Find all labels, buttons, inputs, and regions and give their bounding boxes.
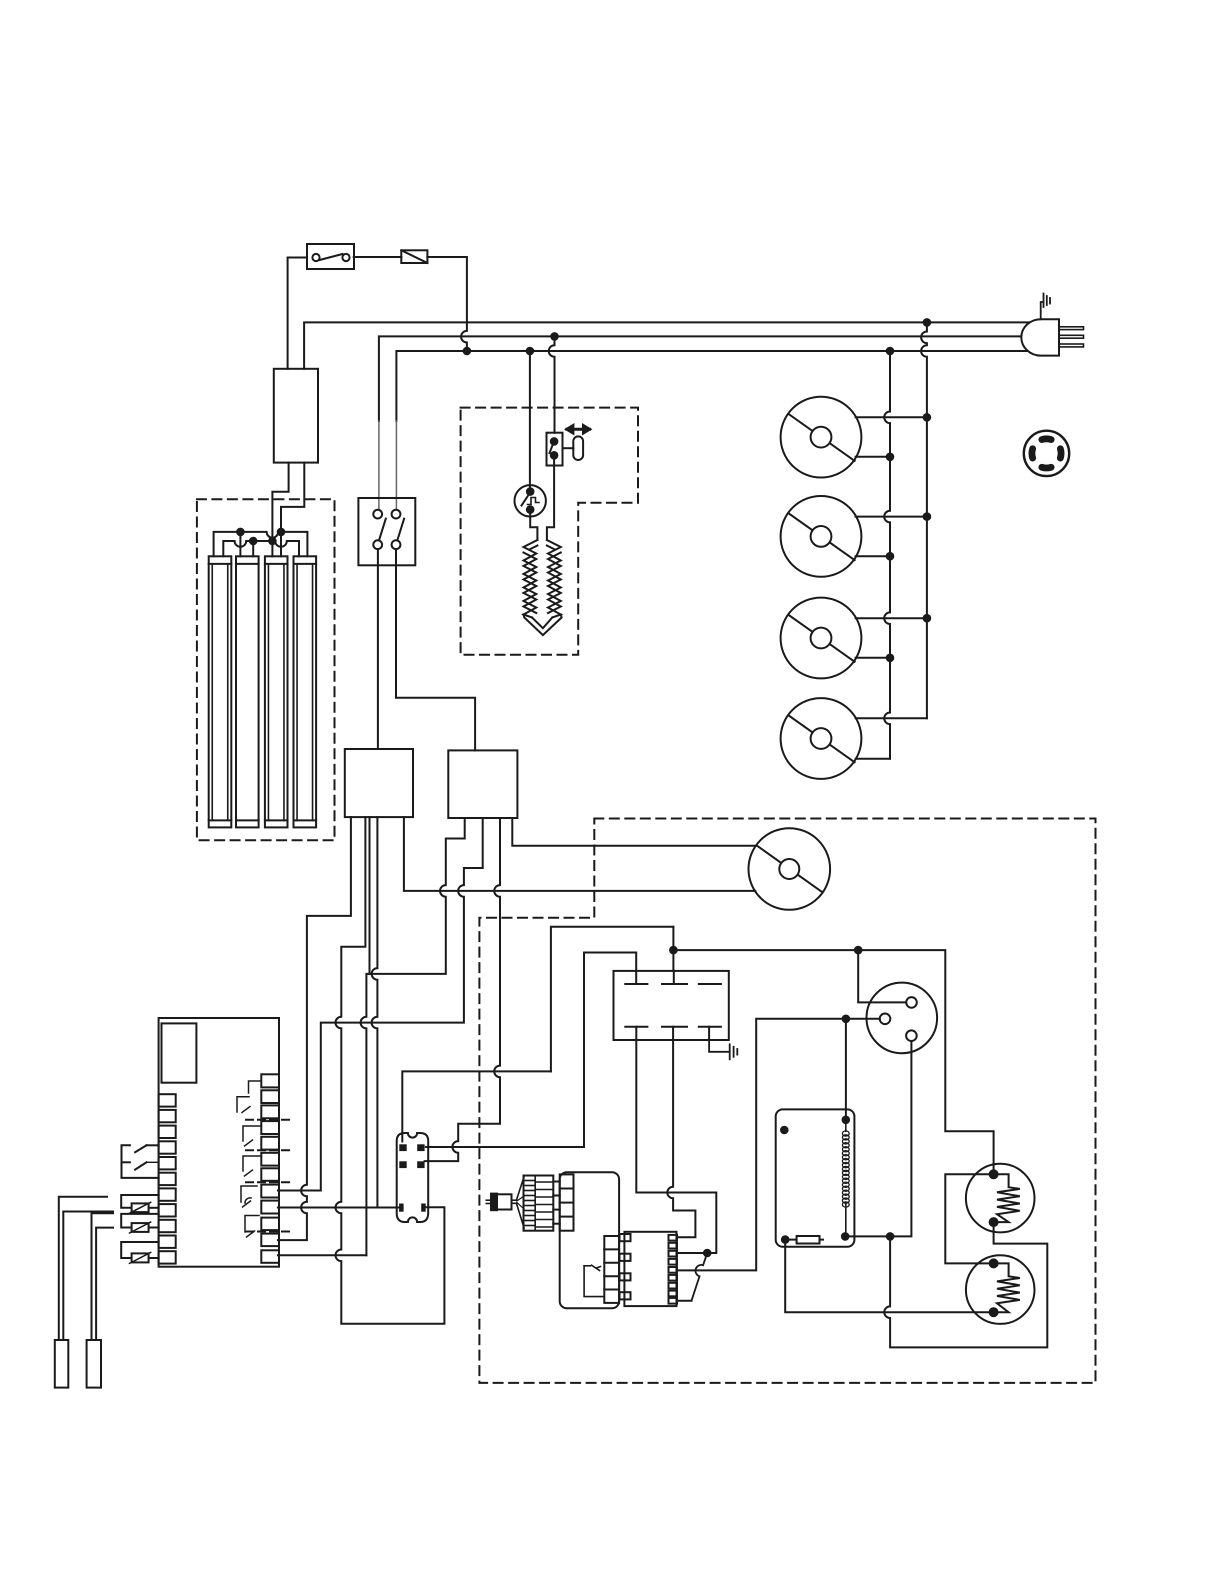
thermal fuse component 2 bbox=[121, 1214, 158, 1233]
3-hole connector (oven plug) bbox=[867, 983, 938, 1054]
node: drop to 3-hole connector top bbox=[854, 946, 863, 955]
node: oven L1 node above terminal block bbox=[669, 946, 678, 955]
board left pin header (12 pins) bbox=[159, 1094, 176, 1263]
bus1 bottom turn to burner4 lower bbox=[856, 758, 890, 760]
broil element E1 circle bbox=[966, 1164, 1035, 1233]
wire: K2 pin4 to broiler burner B5 upper bbox=[512, 818, 756, 846]
timer terminal block (right) bbox=[620, 1232, 678, 1306]
node: line B to oven switch drop bbox=[550, 332, 559, 341]
dashed separator 2 bbox=[246, 1149, 294, 1151]
broiler burner B5 bbox=[749, 828, 831, 910]
node: tap to ignitor panel bbox=[842, 1015, 851, 1024]
broil cutoff switch box bbox=[547, 433, 563, 466]
timer selector column (5 cells) bbox=[604, 1236, 619, 1303]
wire: second feed step to terminal block left bbox=[584, 953, 636, 1148]
dashed separator 3 bbox=[246, 1181, 294, 1183]
wire: line B drop to broil switch, hop over line C bbox=[549, 336, 555, 432]
plug prong 1 bbox=[1059, 327, 1084, 330]
wire: K2 pin3 to connector pad row2 (jogs left, hops wire) bbox=[425, 818, 500, 1161]
control board outline bbox=[159, 1018, 279, 1267]
E2 top terminal bbox=[989, 1258, 999, 1268]
surface burner B2 bbox=[781, 496, 862, 577]
probe wire 1a bbox=[59, 1197, 107, 1340]
lamp L2 bbox=[236, 556, 259, 827]
dashed separator 4 bbox=[246, 1231, 294, 1233]
lamp L4 bbox=[294, 556, 317, 827]
wire: E1 bottom loop to ignitor node bbox=[884, 1222, 1047, 1347]
wire: switch to fuse bbox=[354, 256, 402, 258]
node: bus1 taps line C bbox=[886, 347, 895, 356]
wire: K1 pin2 to connector loop (hops two horizontals) bbox=[335, 817, 444, 1324]
burner B2 lower wire bbox=[856, 555, 890, 557]
board right pin header (13 pins) bbox=[261, 1074, 279, 1263]
burner B1 lower wire bbox=[856, 456, 890, 458]
receptacle symbol (outlet face) bbox=[1024, 431, 1069, 476]
rail1 node lead2 bbox=[277, 528, 286, 537]
terminal block TB bbox=[614, 971, 729, 1040]
node: junction on ignitor bottom wire bbox=[886, 1232, 895, 1241]
thermal fuse component 1 bbox=[121, 1195, 158, 1213]
surface burner B4 bbox=[781, 698, 862, 779]
wire: DPST right pole to relay K2 bbox=[396, 549, 475, 750]
wire: drop into 3-hole connector top-right hole bbox=[858, 950, 906, 1002]
burner B2 upper wire bbox=[856, 516, 927, 518]
panel fuse link bbox=[785, 1239, 823, 1241]
panel mount dot bbox=[780, 1126, 789, 1135]
bus 2 vertical, hops lines B and C bbox=[921, 322, 927, 718]
dashed separator 1 bbox=[246, 1119, 294, 1121]
wire: bottom hole down to ignitor node bbox=[845, 1041, 911, 1236]
transformer lead 1 bbox=[272, 463, 288, 536]
wire: broil switch down to element bbox=[547, 455, 554, 540]
relay K1 bbox=[345, 749, 413, 817]
burner B3 lower wire bbox=[856, 657, 890, 659]
wire: line C drop to thermostat bbox=[529, 351, 531, 487]
surface burner B1 bbox=[781, 397, 862, 478]
bus 1 vertical with hops at burner upper wires bbox=[884, 351, 890, 759]
wire line C (bottom) bbox=[396, 351, 1027, 421]
coil bottom node bbox=[841, 1232, 850, 1241]
lamp rail 1 with hop over lead1 bbox=[214, 532, 308, 556]
wire: DPST left pole to relay K1 bbox=[377, 549, 379, 749]
node: slant arm junction bbox=[703, 1249, 712, 1258]
probe wire 2a bbox=[92, 1213, 114, 1340]
probe wire 1b bbox=[63, 1212, 113, 1341]
DPST switch box bbox=[358, 498, 415, 565]
wire: oven feed L from B5 area down to terminal block (two step wires) bbox=[551, 927, 674, 1072]
ground symbol at plug bbox=[1041, 294, 1050, 320]
wire: timer bottom pin bbox=[677, 1300, 692, 1302]
bus 2 bottom turn to burner4 upper, hop over bus1 bbox=[856, 717, 927, 719]
E1 top terminal bbox=[989, 1169, 999, 1179]
dashed enclosure lamp box bbox=[197, 499, 335, 840]
lamp L1 bbox=[209, 556, 232, 827]
wire: K2 pin1 jog down joins vertical bbox=[361, 818, 465, 1255]
board internal relay contacts bbox=[237, 1081, 261, 1237]
wire line B (middle) bbox=[379, 336, 1021, 421]
transformer T1 bbox=[274, 369, 318, 463]
wire: left hole to timer (down left side) bbox=[677, 1019, 880, 1271]
node: bus2 taps line A bbox=[923, 318, 932, 327]
wire: feed drop to terminal block middle bbox=[672, 927, 674, 971]
selector switch stub bbox=[584, 1265, 604, 1296]
burner B3 upper wire bbox=[856, 617, 927, 619]
power plug P1 body bbox=[1021, 319, 1059, 355]
wire: K1 pin3 down bbox=[372, 817, 378, 1207]
node: fuse wire joins line C bbox=[463, 347, 472, 356]
board switch assembly bbox=[122, 1145, 159, 1178]
transformer lead 2 bbox=[281, 463, 304, 528]
fuse F1 bbox=[401, 250, 427, 263]
connector pads bbox=[399, 1144, 426, 1211]
double-headed arrow bbox=[567, 426, 590, 433]
wire: K1 pin4 to broiler burner B5 lower (hops K2 drops) bbox=[404, 817, 755, 891]
ground symbol at terminal block bbox=[709, 1040, 737, 1059]
door switch S1 box bbox=[307, 244, 354, 269]
wire: thermostat down to element bbox=[530, 510, 537, 540]
thermostat step symbol bbox=[528, 498, 540, 505]
panel bottom-left node bbox=[781, 1235, 790, 1244]
probe wire 2b bbox=[96, 1228, 113, 1340]
plug prong 3 bbox=[1059, 344, 1084, 347]
wire: fuse down to line C with hop over line B bbox=[427, 257, 467, 351]
wire: W1 to connector top pad (hops K2pin3) bbox=[402, 1071, 551, 1141]
rail1 node to lamp2 bbox=[236, 528, 245, 537]
ignitor panel body bbox=[776, 1109, 855, 1246]
wire: board pin12 right (hops K1pin2 vertical) bbox=[278, 1254, 367, 1256]
oven sensor probe 1 bbox=[55, 1340, 69, 1388]
timer contact column (4 cells) bbox=[560, 1174, 574, 1230]
wire: E1 top feed link to E2 bbox=[945, 1174, 993, 1263]
wire: oven L1 rail to right bbox=[673, 950, 993, 1170]
dashed enclosure (L-shape) broil section bbox=[461, 408, 638, 655]
switch actuator link and capsule bbox=[563, 447, 574, 449]
surface burner B3 bbox=[781, 598, 862, 679]
switch arm bbox=[550, 444, 554, 453]
bake element E2 circle bbox=[966, 1255, 1035, 1324]
wire line A (top) bbox=[304, 322, 1030, 368]
wire: node down into ignitor panel coil bbox=[845, 1019, 847, 1120]
node: line C to thermostat drop bbox=[526, 347, 535, 356]
timer motor M bbox=[486, 1176, 524, 1228]
E2 internal resistor bbox=[994, 1263, 1020, 1312]
connector body bbox=[397, 1133, 429, 1222]
oven sensor probe 2 bbox=[87, 1340, 101, 1388]
wire: left feed to connector pad (hops K2pin3 drop) bbox=[426, 1146, 584, 1148]
E2 bottom terminal bbox=[989, 1307, 999, 1317]
board corner block bbox=[162, 1023, 197, 1082]
drop rail1 to lamp2 (hops rail2) bbox=[239, 532, 241, 556]
drop rail2 to lamp2 bbox=[252, 541, 254, 556]
timer enclosure bbox=[560, 1172, 619, 1308]
plug prong 2 bbox=[1059, 335, 1084, 338]
relay K2 bbox=[448, 750, 517, 818]
wire: panel node down to bake element bottom (hops vertical) bbox=[785, 1240, 993, 1313]
lamp L3 bbox=[265, 556, 288, 827]
wire: K1 pin3a stub bbox=[369, 817, 371, 974]
coil top node bbox=[842, 1116, 851, 1125]
E1 bottom terminal bbox=[989, 1217, 999, 1227]
wire: K1 pin1 to board pin10 (hops two horizontals) bbox=[278, 817, 351, 1240]
cam stack bbox=[524, 1176, 560, 1231]
wire: K2 pin2 to board pin8 (hops three verticals) bbox=[278, 818, 483, 1191]
dashed oven enclosure with notch bbox=[479, 819, 1095, 1383]
rail2 node lamp2 bbox=[249, 537, 258, 546]
drop rail2(lead1) to lamp3 bbox=[271, 541, 273, 556]
wire: terminal block left bottom to timer pin2 bbox=[636, 1040, 716, 1253]
solenoid coil bbox=[845, 1120, 847, 1132]
thermostat / limit circle bbox=[515, 485, 546, 516]
drop rail1 to lamp3 (hops rail2) bbox=[280, 532, 282, 556]
wire: terminal block middle bottom to timer pin1 (hops) bbox=[667, 1040, 695, 1237]
timer selector arm (hops pin3 wire) bbox=[692, 1253, 708, 1301]
lamp rail 2 with hops bbox=[223, 541, 299, 556]
thermostat arm bbox=[522, 495, 529, 506]
E1 internal resistor bbox=[994, 1174, 1020, 1222]
thermal fuse component 3 bbox=[121, 1242, 158, 1263]
broil heating element (double zigzag ribbon with arrow tip) bbox=[524, 540, 562, 635]
burner B1 upper wire bbox=[856, 416, 927, 418]
rail2 node lead1 bbox=[268, 537, 277, 546]
wire: board pin9 to connector bottom pad bbox=[278, 1207, 399, 1209]
wire: switch left lead to transformer bbox=[288, 258, 307, 369]
